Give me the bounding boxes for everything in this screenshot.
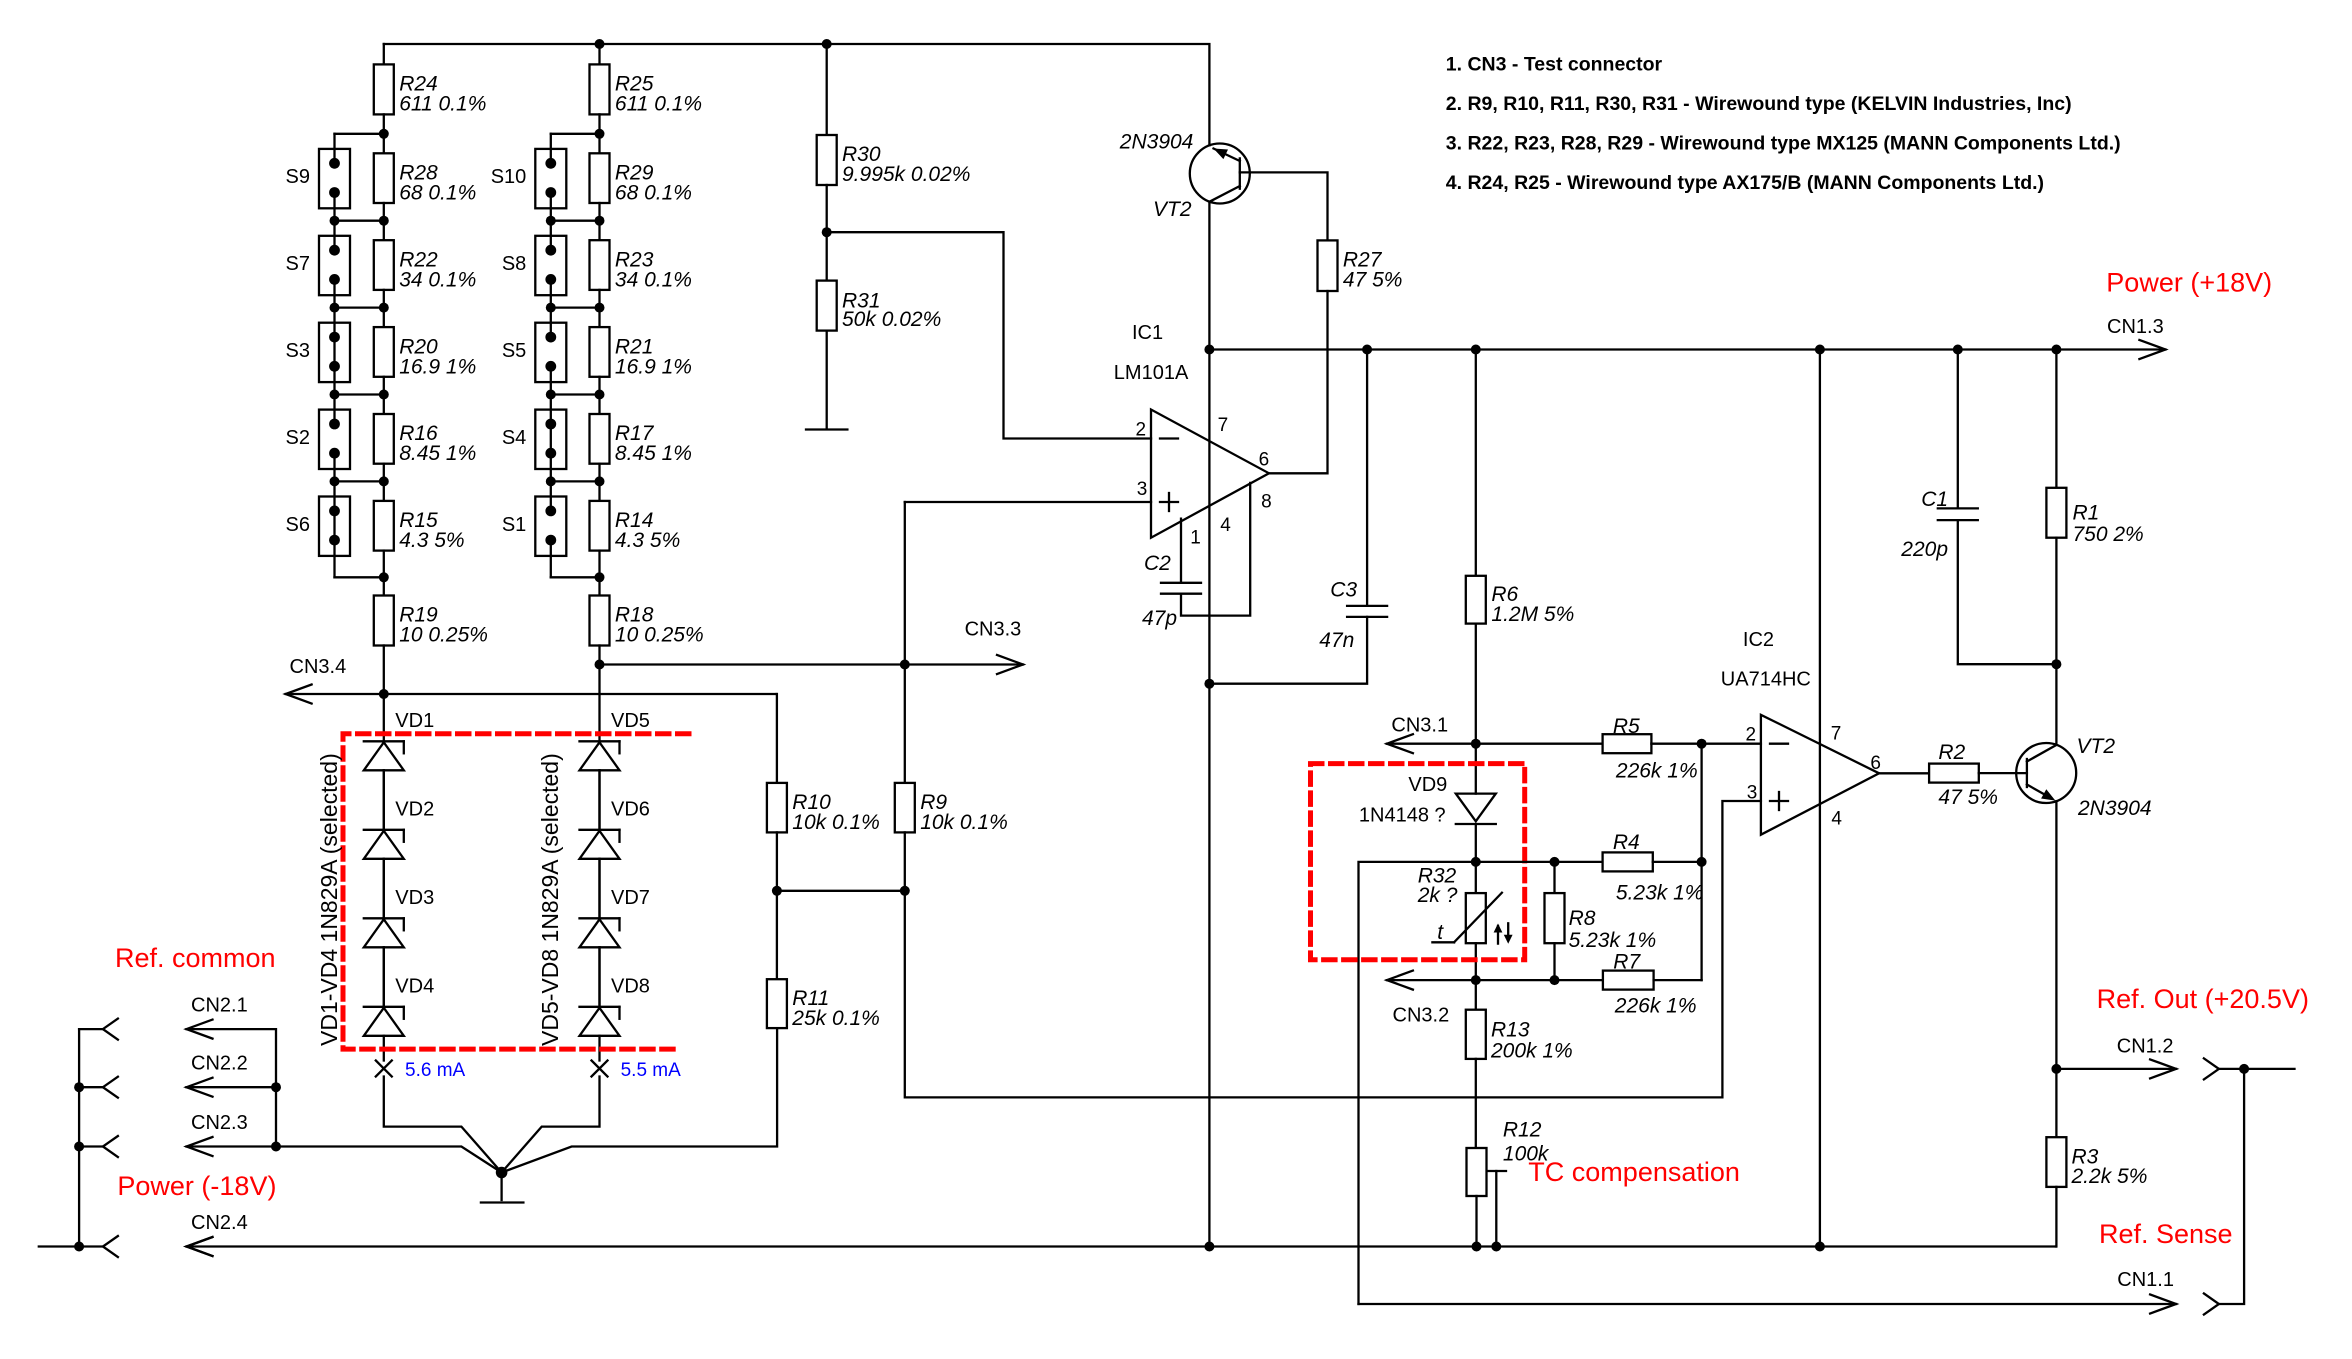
svg-text:611 0.1%: 611 0.1% <box>399 92 486 115</box>
svg-text:220p: 220p <box>1900 538 1948 561</box>
wire ladder row <box>335 220 384 222</box>
node top bus / R25 <box>595 39 605 49</box>
capacitor C1 220p <box>1900 350 2056 665</box>
svg-text:VD1: VD1 <box>395 710 434 732</box>
svg-text:C3: C3 <box>1330 578 1357 601</box>
svg-text:68 0.1%: 68 0.1% <box>615 182 692 205</box>
resistor R17 8.45 1% <box>590 395 692 482</box>
svg-text:10k 0.1%: 10k 0.1% <box>920 811 1008 834</box>
svg-text:34 0.1%: 34 0.1% <box>399 268 476 291</box>
wire CN2.3 into ground node <box>276 1147 502 1173</box>
svg-text:CN1.3: CN1.3 <box>2107 316 2164 338</box>
svg-text:S4: S4 <box>502 427 526 449</box>
svg-text:CN1.1: CN1.1 <box>2117 1269 2174 1291</box>
svg-text:Power (+18V): Power (+18V) <box>2106 267 2272 297</box>
svg-text:VD3: VD3 <box>395 887 434 909</box>
wire R32 row to R8 <box>1476 861 1555 863</box>
svg-text:S5: S5 <box>502 340 526 362</box>
resistor R20 16.9 1% <box>374 308 476 395</box>
resistor R24 611 0.1% <box>374 44 487 134</box>
svg-text:S8: S8 <box>502 253 526 275</box>
resistor R31 50k 0.02% <box>817 232 942 428</box>
wire CN1.2 to CN1.1 external <box>2219 1069 2244 1304</box>
resistor R3 2.2k 5% <box>2046 1069 2147 1247</box>
svg-text:47n: 47n <box>1319 629 1354 652</box>
wire ladder row <box>335 393 384 395</box>
wire IC2 pin7 to +18V and pin4 to bus <box>1819 350 1821 1247</box>
svg-text:S1: S1 <box>502 514 526 536</box>
connector CN1.2 mating pin <box>2204 1058 2244 1079</box>
wire feedback column R5/R4/R7 <box>1700 744 1702 980</box>
node +18V bus <box>1471 345 1481 355</box>
node R4 / feedback column <box>1697 857 1707 867</box>
wire ladder row <box>551 393 600 395</box>
node +18V bus <box>1815 345 1825 355</box>
node +18V bus <box>1953 345 1963 355</box>
wire ladder row <box>335 480 384 482</box>
svg-text:CN3.1: CN3.1 <box>1391 715 1448 737</box>
switch S7 <box>286 221 350 308</box>
svg-text:VD5: VD5 <box>611 710 650 732</box>
svg-text:3. R22, R23, R28, R29 - Wirewo: 3. R22, R23, R28, R29 - Wirewound type M… <box>1446 133 2121 155</box>
wire divider tap to IC1 pin2 <box>827 232 1151 438</box>
diode VD9 1N4148 <box>1359 744 1496 862</box>
svg-text:2N3904: 2N3904 <box>2077 797 2152 820</box>
node CN2.3 join <box>271 1142 281 1152</box>
switch S9 <box>286 134 350 221</box>
svg-text:1. CN3 - Test connector: 1. CN3 - Test connector <box>1446 54 1663 76</box>
svg-text:226k 1%: 226k 1% <box>1615 759 1698 782</box>
node ladder top <box>379 129 389 139</box>
current probe X col1 <box>376 1061 392 1077</box>
net CN1.2 arrow <box>2056 1035 2176 1078</box>
svg-text:3: 3 <box>1747 783 1758 804</box>
node row switch side <box>546 476 556 486</box>
svg-text:47 5%: 47 5% <box>1343 268 1403 291</box>
resistor R25 611 0.1% <box>590 44 703 134</box>
diode VD4 1N829A zener <box>364 947 434 1060</box>
node R6 / CN3.1 / R5 / VD9 <box>1471 739 1481 749</box>
wire ladder row <box>551 220 600 222</box>
svg-text:4: 4 <box>1831 809 1842 830</box>
svg-text:8.45 1%: 8.45 1% <box>615 442 692 465</box>
resistor R15 4.3 5% <box>374 481 465 577</box>
wire ladder bottom jog <box>551 576 600 578</box>
svg-text:CN2.3: CN2.3 <box>191 1112 248 1134</box>
switch S5 <box>502 308 566 395</box>
wire IC1 pin6 output to R27 <box>1269 291 1328 473</box>
net +18V power bus <box>1209 340 2165 359</box>
svg-text:R7: R7 <box>1613 950 1641 973</box>
net CN3.4 test connector arrow <box>286 656 777 704</box>
svg-text:25k 0.1%: 25k 0.1% <box>791 1007 880 1030</box>
wire VT2 base to R27 <box>1240 172 1328 240</box>
svg-text:226k 1%: 226k 1% <box>1614 995 1697 1018</box>
svg-text:CN3.3: CN3.3 <box>965 619 1022 641</box>
wire ladder row <box>551 480 600 482</box>
node CN1.2 external <box>2239 1064 2249 1074</box>
node R19 / CN3.4 / VD1 <box>379 689 389 699</box>
svg-text:CN3.2: CN3.2 <box>1393 1005 1450 1027</box>
resistor R23 34 0.1% <box>590 221 692 308</box>
svg-text:2: 2 <box>1746 725 1757 746</box>
svg-text:50k 0.02%: 50k 0.02% <box>842 308 941 331</box>
node row resistor side <box>379 216 389 226</box>
wire ground node to R11 <box>502 1028 777 1172</box>
wire CN3.4 to R10 <box>775 694 778 783</box>
switch S4 <box>502 395 566 482</box>
svg-text:8.45 1%: 8.45 1% <box>399 442 476 465</box>
resistor R9 10k 0.1% <box>895 502 1008 891</box>
svg-text:S10: S10 <box>491 166 527 188</box>
svg-text:8: 8 <box>1261 491 1272 512</box>
node ladder bottom <box>379 572 389 582</box>
node diode ground junction <box>496 1167 508 1179</box>
switch S1 <box>502 481 566 577</box>
wire IC1 pin3 input <box>905 501 1151 503</box>
wire VD9 node to CN1.1 column <box>1359 862 1476 1304</box>
svg-text:Ref. common: Ref. common <box>115 943 276 973</box>
svg-text:4: 4 <box>1220 515 1231 536</box>
node row resistor side <box>379 476 389 486</box>
node row resistor side <box>595 216 605 226</box>
resistor R30 9.995k 0.02% <box>817 44 971 232</box>
node CN2.2 join <box>271 1082 281 1092</box>
wire ladder bottom jog <box>335 576 384 578</box>
wire ladder top jog <box>335 133 384 135</box>
node IC1 pin4 / C3 <box>1204 679 1214 689</box>
wire CN2.2 <box>187 1086 277 1088</box>
node row switch side <box>330 476 340 486</box>
svg-text:VD7: VD7 <box>611 887 650 909</box>
svg-text:VD9: VD9 <box>1408 774 1447 796</box>
node R8 bottom <box>1550 975 1560 985</box>
node R12 bottom <box>1472 1242 1482 1252</box>
wire CN3.2 row to R7 <box>1476 979 1603 981</box>
net CN3.1 arrow <box>1387 715 1476 754</box>
node R5 / feedback column <box>1697 739 1707 749</box>
resistor R27 47 5% <box>1318 240 1403 291</box>
switch S10 <box>491 134 567 221</box>
svg-text:10 0.25%: 10 0.25% <box>399 624 488 647</box>
svg-text:200k 1%: 200k 1% <box>1490 1039 1573 1062</box>
svg-text:UA714HC: UA714HC <box>1721 669 1811 691</box>
svg-text:R8: R8 <box>1569 907 1596 930</box>
svg-text:IC2: IC2 <box>1743 629 1774 651</box>
svg-text:1N4148 ?: 1N4148 ? <box>1359 804 1446 826</box>
svg-text:5.5 mA: 5.5 mA <box>621 1060 682 1081</box>
node VD9 / R32 / R4 row <box>1471 857 1481 867</box>
wire CN1.2 external stub <box>2244 1068 2294 1070</box>
svg-text:S2: S2 <box>286 427 310 449</box>
wire R10-R9 junction row <box>777 890 905 892</box>
wire R9 to IC2 pin3 <box>905 801 1761 1097</box>
svg-text:R12: R12 <box>1503 1119 1542 1142</box>
wire IC1 pin4 down to CN2.4 bus <box>1208 684 1210 1247</box>
resistor R7 226k 1% <box>1603 950 1702 1017</box>
svg-text:C1: C1 <box>1921 488 1948 511</box>
diode VD5 1N829A zener <box>580 665 650 830</box>
svg-text:CN1.2: CN1.2 <box>2117 1035 2174 1057</box>
resistor R13 200k 1% <box>1466 980 1573 1148</box>
svg-text:VD4: VD4 <box>395 975 434 997</box>
resistor R8 5.23k 1% <box>1545 862 1657 980</box>
resistor R5 226k 1% <box>1476 715 1761 782</box>
node ladder bottom <box>595 572 605 582</box>
svg-text:7: 7 <box>1218 415 1229 436</box>
op-amp IC2 UA714HC <box>1721 629 1881 835</box>
svg-text:2.2k 5%: 2.2k 5% <box>2071 1165 2148 1188</box>
svg-text:47 5%: 47 5% <box>1938 786 1998 809</box>
svg-text:TC compensation: TC compensation <box>1528 1157 1740 1187</box>
resistor R4 5.23k 1% <box>1555 831 1704 904</box>
wire VT2 collector to R1/C1 node <box>2055 664 2057 745</box>
svg-text:CN3.4: CN3.4 <box>290 656 347 678</box>
trimmer R12 100k <box>1467 1119 1550 1247</box>
svg-text:VD6: VD6 <box>611 798 650 820</box>
resistor R14 4.3 5% <box>590 481 681 577</box>
current probe X col2 <box>592 1061 608 1077</box>
node row switch side <box>546 216 556 226</box>
svg-text:Ref. Out (+20.5V): Ref. Out (+20.5V) <box>2097 984 2309 1014</box>
wire ground node stub <box>500 1173 502 1201</box>
resistor R28 68 0.1% <box>374 134 476 221</box>
net CN2.4 arrow <box>187 1237 213 1256</box>
resistor R10 10k 0.1% <box>767 783 880 891</box>
connector CN2 mating column <box>39 1019 118 1257</box>
wire VT2 emitter down to +18V bus and IC1 pin7/pin4 <box>1208 202 1210 684</box>
svg-text:16.9 1%: 16.9 1% <box>399 355 476 378</box>
svg-text:R4: R4 <box>1613 831 1640 854</box>
svg-text:VT2: VT2 <box>1153 198 1192 221</box>
svg-text:R13: R13 <box>1491 1019 1530 1042</box>
svg-text:2. R9, R10, R11, R30, R31 - Wi: 2. R9, R10, R11, R30, R31 - Wirewound ty… <box>1446 93 2072 115</box>
node row resistor side <box>379 390 389 400</box>
svg-text:47p: 47p <box>1142 607 1177 630</box>
node R1 / C1 <box>2051 659 2061 669</box>
wire ladder row <box>335 306 384 308</box>
transistor VT2 2N3904 (output) <box>2016 735 2151 820</box>
wire VD8 anode to ground node <box>502 1077 600 1173</box>
svg-text:CN2.2: CN2.2 <box>191 1053 248 1075</box>
node row resistor side <box>595 390 605 400</box>
node R12 wiper <box>1491 1242 1501 1252</box>
svg-text:750 2%: 750 2% <box>2073 523 2144 546</box>
node R9 bottom <box>900 886 910 896</box>
svg-text:VT2: VT2 <box>2077 735 2116 758</box>
wire CN2.1 to CN2.2 join <box>187 1029 277 1146</box>
wire ladder top jog <box>551 133 600 135</box>
svg-text:2k ?: 2k ? <box>1417 884 1458 907</box>
svg-text:1: 1 <box>1190 527 1201 548</box>
svg-text:10 0.25%: 10 0.25% <box>615 624 704 647</box>
svg-text:611 0.1%: 611 0.1% <box>615 92 702 115</box>
ground symbol <box>481 1201 524 1203</box>
connector CN1.1 mating pin <box>2204 1294 2219 1315</box>
diode VD8 1N829A zener <box>580 947 650 1060</box>
selection box VD1-VD8 (red dashed) <box>343 734 689 1049</box>
resistor R1 750 2% <box>2046 350 2143 665</box>
diode VD6 1N829A zener <box>580 770 650 918</box>
node row switch side <box>330 216 340 226</box>
switch S8 <box>502 221 566 308</box>
svg-text:9.995k 0.02%: 9.995k 0.02% <box>842 163 970 186</box>
switch S6 <box>286 481 350 577</box>
svg-text:VD2: VD2 <box>395 798 434 820</box>
svg-text:68 0.1%: 68 0.1% <box>399 182 476 205</box>
svg-text:Power (-18V): Power (-18V) <box>117 1171 276 1201</box>
svg-text:4.3 5%: 4.3 5% <box>615 529 680 552</box>
node row switch side <box>546 303 556 313</box>
svg-text:3: 3 <box>1137 479 1148 500</box>
svg-text:2: 2 <box>1136 419 1147 440</box>
resistor R6 1.2M 5% <box>1466 350 1574 744</box>
svg-text:5.23k 1%: 5.23k 1% <box>1569 929 1657 952</box>
svg-text:5.6 mA: 5.6 mA <box>405 1060 466 1081</box>
diode VD2 1N829A zener <box>364 770 434 918</box>
svg-text:S7: S7 <box>286 253 310 275</box>
svg-text:4.3 5%: 4.3 5% <box>399 529 464 552</box>
switch S2 <box>286 395 350 482</box>
net CN3.2 arrow <box>1387 971 1476 1027</box>
selection box VD9/R32 (red dashed) <box>1311 764 1525 960</box>
svg-text:34 0.1%: 34 0.1% <box>615 268 692 291</box>
node VT2 emitter / CN1.2 / R3 <box>2051 1064 2061 1074</box>
svg-text:VD8: VD8 <box>611 975 650 997</box>
wire top bus (R24/R25 tops to VT2 collector) <box>384 44 1210 145</box>
node R8 top <box>1550 857 1560 867</box>
svg-text:16.9 1%: 16.9 1% <box>615 355 692 378</box>
svg-text:LM101A: LM101A <box>1114 362 1189 384</box>
resistor R22 34 0.1% <box>374 221 476 308</box>
node CN3.3 / R9 column <box>900 660 910 670</box>
svg-text:S3: S3 <box>286 340 310 362</box>
svg-text:6: 6 <box>1870 753 1881 774</box>
svg-text:7: 7 <box>1831 723 1842 744</box>
node row resistor side <box>595 476 605 486</box>
svg-text:S9: S9 <box>286 166 310 188</box>
capacitor C3 47n <box>1209 350 1387 684</box>
svg-text:Ref. Sense: Ref. Sense <box>2099 1219 2233 1249</box>
resistor R18 10 0.25% <box>590 577 704 664</box>
net CN2.2 arrow <box>187 1078 213 1097</box>
svg-text:CN2.1: CN2.1 <box>191 995 248 1017</box>
svg-text:CN2.4: CN2.4 <box>191 1212 248 1234</box>
net CN1.1 sense wire <box>1359 1269 2177 1313</box>
node top bus / R30 <box>822 39 832 49</box>
node row resistor side <box>379 303 389 313</box>
node +18V bus <box>1362 345 1372 355</box>
node +18V bus <box>2051 345 2061 355</box>
svg-text:1.2M 5%: 1.2M 5% <box>1491 603 1574 626</box>
ground symbol R31 <box>806 428 847 430</box>
net CN2.4 / Ref common bus <box>187 1237 2056 1256</box>
resistor R16 8.45 1% <box>374 395 476 482</box>
node IC1 pin4 / CN2.4 bus <box>1204 1242 1214 1252</box>
node R30/R31 divider tap <box>822 227 832 237</box>
node row switch side <box>330 390 340 400</box>
node R32 / R13 / CN3.2 <box>1471 975 1481 985</box>
svg-text:10k 0.1%: 10k 0.1% <box>792 811 880 834</box>
net CN2.1 arrow <box>187 1020 213 1039</box>
op-amp IC1 LM101A <box>1114 322 1272 548</box>
svg-text:4. R24, R25 - Wirewound type A: 4. R24, R25 - Wirewound type AX175/B (MA… <box>1446 172 2044 194</box>
diode VD3 1N829A zener <box>364 859 434 1007</box>
svg-text:R1: R1 <box>2073 501 2100 524</box>
resistor R2 47 5% <box>1879 741 2027 809</box>
svg-text:R2: R2 <box>1938 741 1965 764</box>
resistor R21 16.9 1% <box>590 308 692 395</box>
wire VD4 anode to ground node <box>384 1077 502 1173</box>
diode VD7 1N829A zener <box>580 859 650 1007</box>
svg-text:VD5-VD8 1N829A (selected): VD5-VD8 1N829A (selected) <box>537 753 563 1046</box>
wire ladder row <box>551 306 600 308</box>
svg-text:2N3904: 2N3904 <box>1119 131 1194 154</box>
resistor R19 10 0.25% <box>374 577 488 694</box>
resistor R29 68 0.1% <box>590 134 692 221</box>
thermistor R32 2k <box>1417 862 1513 980</box>
node R10/R11 <box>772 886 782 896</box>
node row switch side <box>330 303 340 313</box>
capacitor C2 47p <box>1142 483 1250 630</box>
svg-text:6: 6 <box>1259 449 1270 470</box>
svg-text:IC1: IC1 <box>1132 322 1163 344</box>
switch S3 <box>286 308 350 395</box>
svg-text:S6: S6 <box>286 514 310 536</box>
svg-text:R5: R5 <box>1613 715 1640 738</box>
diode VD1 1N829A zener <box>364 694 434 830</box>
wire CN2.3 stub <box>187 1145 277 1147</box>
node row switch side <box>546 390 556 400</box>
node R18 / CN3.3 <box>595 660 605 670</box>
node +18V bus <box>1204 345 1214 355</box>
wire VT2 emitter to CN1.2 node <box>2055 801 2057 1069</box>
net CN3.3 test connector arrow <box>600 619 1024 674</box>
resistor R11 25k 0.1% <box>767 891 880 1030</box>
node ladder top <box>595 129 605 139</box>
net CN2.3 arrow <box>187 1137 213 1156</box>
transistor VT2 2N3904 (top current source) <box>1119 131 1250 221</box>
svg-text:VD1-VD4 1N829A (selected): VD1-VD4 1N829A (selected) <box>316 753 342 1046</box>
node IC2 pin4 / CN2.4 bus <box>1815 1242 1825 1252</box>
node row resistor side <box>595 303 605 313</box>
svg-text:5.23k 1%: 5.23k 1% <box>1616 881 1704 904</box>
svg-text:C2: C2 <box>1144 552 1171 575</box>
